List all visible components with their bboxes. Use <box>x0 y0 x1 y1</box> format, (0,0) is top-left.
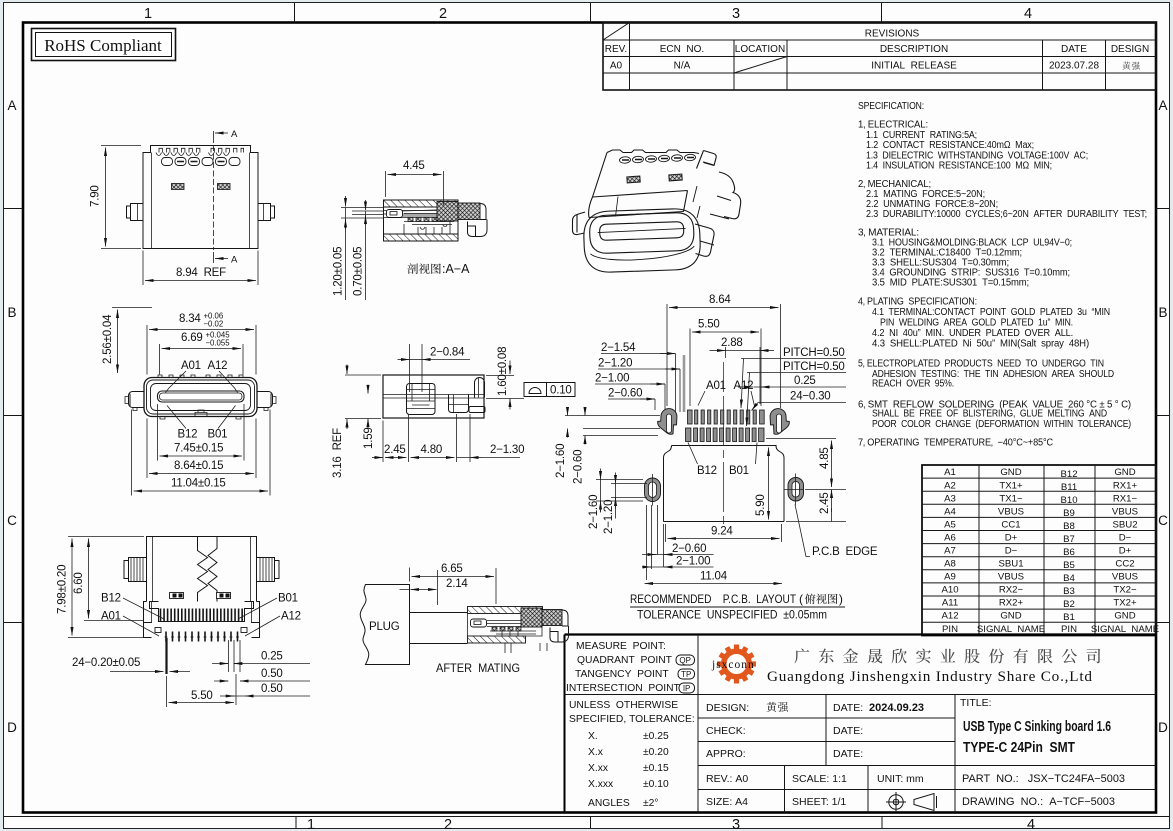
front face edges <box>589 191 688 218</box>
svg-text:A2: A2 <box>944 481 956 492</box>
svg-text:B: B <box>1158 305 1167 320</box>
dim 1.20 / 0.70 <box>346 208 366 301</box>
svg-text:4.45: 4.45 <box>403 160 425 172</box>
revisions table <box>603 23 1156 91</box>
svg-text:2−1.00: 2−1.00 <box>595 373 629 385</box>
top face side edges <box>593 151 704 198</box>
svg-text:TITLE:: TITLE: <box>960 697 992 709</box>
RoHS Compliant box <box>32 29 176 61</box>
svg-text:REACH OVER 95%.: REACH OVER 95%. <box>872 379 954 390</box>
svg-text:DRAWING NO.: A−TCF−5003: DRAWING NO.: A−TCF−5003 <box>962 796 1115 808</box>
svg-text:2−1.60: 2−1.60 <box>588 495 600 529</box>
svg-text:PITCH=0.50: PITCH=0.50 <box>783 361 845 373</box>
svg-text:2.3 DURABILITY:10000 CYCLES;: 2.3 DURABILITY:10000 CYCLES;6~20N AFTER … <box>866 209 1147 220</box>
svg-text:USB Type C Sinking board 1.6: USB Type C Sinking board 1.6 <box>963 719 1111 735</box>
svg-text:TX1−: TX1− <box>999 494 1023 505</box>
svg-text:24−0.20±0.05: 24−0.20±0.05 <box>72 657 140 669</box>
svg-text:2−0.60: 2−0.60 <box>608 388 642 400</box>
svg-text:RoHS Compliant: RoHS Compliant <box>44 36 162 55</box>
svg-text:1: 1 <box>144 6 152 22</box>
svg-text:A7: A7 <box>944 546 956 557</box>
plug with break line <box>360 585 409 665</box>
diagonal cell location <box>734 57 787 74</box>
svg-text:P.C.B EDGE: P.C.B EDGE <box>812 546 878 558</box>
zone ticks left <box>4 209 24 623</box>
svg-text:REV.: REV. <box>605 44 627 55</box>
shell top back edge <box>607 150 699 154</box>
svg-text:0.70±0.05: 0.70±0.05 <box>353 247 365 296</box>
outer housing <box>147 537 257 602</box>
svg-text:TX2+: TX2+ <box>1113 598 1137 609</box>
svg-text:DESCRIPTION: DESCRIPTION <box>880 44 948 55</box>
svg-text:1.60±0.08: 1.60±0.08 <box>497 347 509 396</box>
svg-text:−0.02: −0.02 <box>204 320 224 329</box>
svg-text:3: 3 <box>732 817 740 831</box>
mating lines <box>410 613 468 644</box>
svg-text:A11: A11 <box>942 598 958 609</box>
svg-text:2−0.84: 2−0.84 <box>430 347 465 359</box>
svg-text:A10: A10 <box>941 585 958 596</box>
svg-text:B01: B01 <box>729 465 749 477</box>
svg-text:DESIGN: DESIGN <box>1111 44 1149 55</box>
oval dims left <box>596 480 647 502</box>
right dense block <box>437 202 458 222</box>
svg-text:SHALL BE FREE OF BLISTERIN: SHALL BE FREE OF BLISTERING, GLUE MELTIN… <box>872 409 1107 420</box>
outer shell <box>144 378 257 417</box>
svg-text:2: 2 <box>444 817 452 831</box>
svg-text:1.2 CONTACT RESISTANCE:40mΩ: 1.2 CONTACT RESISTANCE:40mΩ Max; <box>866 140 1034 151</box>
svg-text:B5: B5 <box>1063 560 1075 571</box>
zone letters right <box>1158 98 1168 735</box>
svg-text:SHEET: 1/1: SHEET: 1/1 <box>792 796 846 808</box>
title block <box>565 635 1157 813</box>
svg-text:A9: A9 <box>944 572 956 583</box>
svg-text:X.xxx: X.xxx <box>588 779 614 790</box>
dim 6.65 <box>400 568 497 605</box>
svg-text:SCALE: 1:1: SCALE: 1:1 <box>792 773 847 785</box>
svg-text:B7: B7 <box>1063 534 1075 545</box>
dim 1.59 <box>367 385 369 394</box>
measure point cell <box>566 641 681 694</box>
dim 3.16 REF <box>346 365 348 375</box>
svg-text:C: C <box>1158 513 1168 528</box>
svg-text:TOLERANCE UNSPECIFIED ±0.05m: TOLERANCE UNSPECIFIED ±0.05mm <box>637 608 827 622</box>
svg-text:±0.20: ±0.20 <box>643 747 669 758</box>
svg-text:DESIGN:: DESIGN: <box>706 702 749 714</box>
inner clip <box>407 384 436 415</box>
svg-text:D−: D− <box>1119 533 1132 544</box>
svg-text:A1: A1 <box>944 467 956 478</box>
svg-text:B9: B9 <box>1063 508 1075 519</box>
shell top/bottom hatched <box>384 200 459 207</box>
bottom dims 2.45 4.80 2-1.30 <box>383 414 470 462</box>
svg-text:2.45: 2.45 <box>384 444 406 456</box>
svg-text:B6: B6 <box>1063 547 1075 558</box>
svg-text:UNLESS OTHERWISE: UNLESS OTHERWISE <box>569 700 678 711</box>
svg-text:TX1+: TX1+ <box>999 481 1023 492</box>
left leader lines <box>341 208 384 219</box>
pads top row <box>688 410 765 424</box>
right lower hook <box>695 224 714 256</box>
svg-text:TYPE-C 24Pin SMT: TYPE-C 24Pin SMT <box>963 740 1075 756</box>
svg-text:4.1 TERMINAL:CONTACT POINT: 4.1 TERMINAL:CONTACT POINT GOLD PLATED 3… <box>872 307 1110 318</box>
svg-text:4: 4 <box>1024 6 1032 22</box>
pads bottom row <box>686 428 765 442</box>
flatness flag <box>524 383 575 397</box>
svg-text:2024.09.23: 2024.09.23 <box>869 702 924 714</box>
svg-text:B1: B1 <box>1063 612 1075 623</box>
9.24 <box>666 524 782 542</box>
svg-text:2.56±0.04: 2.56±0.04 <box>102 314 114 364</box>
svg-text:±0.25: ±0.25 <box>643 731 669 742</box>
svg-text:QUADRANT POINT: QUADRANT POINT <box>577 655 673 666</box>
svg-text:7‚ OPERATING TEMPERATURE‚ −4: 7‚ OPERATING TEMPERATURE‚ −40°C~+85°C <box>858 438 1053 449</box>
dim 4.45 <box>386 171 444 205</box>
svg-text:PIN: PIN <box>942 624 958 635</box>
title cell <box>960 697 1125 808</box>
svg-text:0.50: 0.50 <box>261 668 283 680</box>
svg-text:±2°: ±2° <box>643 798 659 809</box>
svg-text:2−1.20: 2−1.20 <box>598 358 632 370</box>
svg-text:RX1−: RX1− <box>1113 494 1138 505</box>
svg-text:X.: X. <box>588 731 598 742</box>
pcb outline <box>664 446 785 522</box>
svg-text:GND: GND <box>1114 611 1135 622</box>
svg-text:VBUS: VBUS <box>998 572 1024 583</box>
svg-text:IP: IP <box>683 684 691 693</box>
svg-text:A01: A01 <box>706 380 726 392</box>
svg-text:ECN NO.: ECN NO. <box>660 44 704 55</box>
svg-text:2−1.30: 2−1.30 <box>490 444 524 456</box>
terminal detail <box>387 210 403 218</box>
svg-text:SIGNAL NAME: SIGNAL NAME <box>1091 624 1159 635</box>
top edge bumps <box>158 375 243 378</box>
svg-text:A5: A5 <box>944 520 956 531</box>
designer name glyphs (revisions) <box>1122 62 1139 70</box>
svg-text:B8: B8 <box>1063 521 1075 532</box>
svg-text:A12: A12 <box>941 611 958 622</box>
svg-text:4‚ PLATING SPECIFICATION:: 4‚ PLATING SPECIFICATION: <box>858 297 977 308</box>
svg-text:APPRO:: APPRO: <box>706 748 746 760</box>
left mounting oval <box>645 474 661 506</box>
svg-text:−0.055: −0.055 <box>206 339 231 348</box>
dim 8.94 REF <box>143 251 258 286</box>
side mount tabs <box>127 204 144 221</box>
svg-text:±0.10: ±0.10 <box>643 779 669 790</box>
svg-text:1.59: 1.59 <box>363 427 375 449</box>
svg-text:PIN WELDING AREA GOLD PLAT: PIN WELDING AREA GOLD PLATED 1u” MIN. <box>880 318 1073 329</box>
center herringbone <box>198 537 218 602</box>
dim 7.98 <box>68 537 144 638</box>
side wings <box>124 558 147 582</box>
lower legs comb <box>165 632 240 642</box>
zone ticks top <box>295 3 882 23</box>
inner cavity lines <box>384 207 456 218</box>
svg-text:REVISIONS: REVISIONS <box>865 29 920 40</box>
svg-text:A: A <box>231 255 238 266</box>
svg-text:): ) <box>839 592 843 606</box>
svg-text:PART NO.: JSX−TC24FA−5003: PART NO.: JSX−TC24FA−5003 <box>962 773 1125 785</box>
svg-text:2.14: 2.14 <box>446 578 468 590</box>
svg-text:B: B <box>7 305 16 320</box>
svg-text:SBU1: SBU1 <box>998 559 1023 570</box>
dim 2.56 <box>112 307 152 309</box>
bezel inner <box>589 212 694 254</box>
svg-text:A4: A4 <box>944 507 956 518</box>
right mounting oval <box>784 474 804 506</box>
svg-text:LOCATION: LOCATION <box>735 44 785 55</box>
svg-text:TANGENCY POINT: TANGENCY POINT <box>575 669 669 680</box>
svg-text:7.98±0.20: 7.98±0.20 <box>57 565 69 614</box>
svg-text:X.x: X.x <box>588 747 604 758</box>
svg-text:RECOMMENDED P.C.B. LAYOUT: RECOMMENDED P.C.B. LAYOUT <box>630 592 796 606</box>
tongue <box>158 391 245 402</box>
receptacle section <box>468 607 543 614</box>
svg-text:8.64±0.15: 8.64±0.15 <box>174 460 223 472</box>
svg-text:QP: QP <box>679 656 691 665</box>
4.85 / 2.45 <box>831 441 833 488</box>
company logo gear <box>717 645 756 684</box>
right tail <box>468 204 488 237</box>
bottom center notch <box>195 410 207 417</box>
svg-text:jsxconn: jsxconn <box>711 659 755 671</box>
svg-text:5‚ ELECTROPLATED PRODUCTS NE: 5‚ ELECTROPLATED PRODUCTS NEED TO UNDERG… <box>858 359 1104 370</box>
svg-text:X.xx: X.xx <box>588 763 609 774</box>
inner cavity <box>151 384 251 411</box>
svg-text:2: 2 <box>439 6 447 22</box>
centerline <box>723 362 725 524</box>
svg-text:REV.: A0: REV.: A0 <box>706 773 748 785</box>
svg-text:1.20±0.05: 1.20±0.05 <box>333 247 345 296</box>
svg-text:2.88: 2.88 <box>721 337 743 349</box>
long legs <box>165 638 167 674</box>
svg-text:VBUS: VBUS <box>1112 507 1138 518</box>
5.90 <box>768 448 770 520</box>
svg-text:(: ( <box>799 592 803 606</box>
svg-text:1.4 INSULATION RESISTANCE:10: 1.4 INSULATION RESISTANCE:100 MΩ MIN; <box>866 161 1052 172</box>
svg-text:GND: GND <box>1000 467 1021 478</box>
svg-text:PITCH=0.50: PITCH=0.50 <box>783 347 845 359</box>
svg-text:C: C <box>7 513 17 528</box>
svg-text:A: A <box>231 129 238 140</box>
left reference lines <box>565 416 660 436</box>
svg-text:ANGLES: ANGLES <box>588 798 630 809</box>
left ground hook <box>657 408 677 435</box>
svg-text:SIZE: A4: SIZE: A4 <box>706 796 748 808</box>
svg-text:9.24: 9.24 <box>711 526 733 538</box>
upper contact comb <box>150 602 254 622</box>
svg-text:RX2−: RX2− <box>999 585 1024 596</box>
svg-text:A3: A3 <box>944 494 956 505</box>
right ear clip <box>703 151 716 166</box>
svg-text:0.50: 0.50 <box>261 683 283 695</box>
dim 6.60 <box>84 620 144 622</box>
svg-text:GND: GND <box>1000 611 1021 622</box>
tongue <box>599 222 684 241</box>
hatched weld marks <box>172 184 185 190</box>
svg-text:CHECK:: CHECK: <box>706 725 746 737</box>
svg-text:UNIT: mm: UNIT: mm <box>877 773 924 785</box>
svg-text:6.69: 6.69 <box>181 332 203 344</box>
svg-text:POOR COLOR CHANGE (DEFORMAT: POOR COLOR CHANGE (DEFORMATION WITHIN TO… <box>872 419 1131 430</box>
projection symbols <box>886 792 937 812</box>
diagonal cell top-left <box>603 23 630 41</box>
svg-text:VBUS: VBUS <box>1112 572 1138 583</box>
right hook <box>475 378 485 398</box>
center block <box>449 395 469 413</box>
svg-text:D: D <box>1158 720 1168 735</box>
svg-text:5.50: 5.50 <box>191 690 213 702</box>
zone numbers bottom <box>307 817 1035 831</box>
svg-text:24−0.30: 24−0.30 <box>790 391 831 403</box>
svg-text:2−0.60: 2−0.60 <box>573 450 585 484</box>
svg-text:5.90: 5.90 <box>755 494 767 516</box>
svg-text:1‚ ELECTRICAL:: 1‚ ELECTRICAL: <box>858 120 928 131</box>
weld nubs <box>170 593 184 599</box>
right mount tab <box>257 392 273 408</box>
svg-text:3: 3 <box>732 6 740 22</box>
svg-text:VBUS: VBUS <box>998 507 1024 518</box>
svg-text:MEASURE POINT:: MEASURE POINT: <box>576 641 666 652</box>
svg-text:4.80: 4.80 <box>421 444 443 456</box>
dim 7.90 <box>101 146 141 249</box>
svg-text:DATE:: DATE: <box>833 748 863 760</box>
svg-text:B3: B3 <box>1063 586 1075 597</box>
svg-text:4.3 SHELL:PLATED Ni 50u” M: 4.3 SHELL:PLATED Ni 50u” MIN(Salt spray … <box>872 339 1089 350</box>
svg-text:0.25: 0.25 <box>794 375 816 387</box>
left mount tab <box>129 392 145 408</box>
row of holes <box>162 158 241 166</box>
svg-text:A: A <box>7 98 16 113</box>
dim 7.45 <box>158 404 245 461</box>
svg-text:N/A: N/A <box>674 61 691 72</box>
designer name glyphs (design cell) <box>766 702 788 712</box>
svg-text:D+: D+ <box>1119 546 1132 557</box>
svg-text:4.2 NI 40u” MIN. UNDER PL: 4.2 NI 40u” MIN. UNDER PLATED OVER ALL. <box>872 328 1073 339</box>
svg-text:4.85: 4.85 <box>819 447 831 469</box>
svg-text:B11: B11 <box>1061 482 1077 493</box>
svg-text:D+: D+ <box>1005 533 1018 544</box>
zone ticks right <box>1156 209 1170 623</box>
dim 11.04 <box>132 410 271 496</box>
caption 剖视图:A-A <box>407 263 440 274</box>
svg-text:SPECIFIED, TOLERANCE:: SPECIFIED, TOLERANCE: <box>569 714 695 725</box>
svg-text:2.45: 2.45 <box>819 492 831 514</box>
svg-text:TX2−: TX2− <box>1113 585 1137 596</box>
svg-text:11.04: 11.04 <box>700 571 728 583</box>
svg-text:TP: TP <box>681 670 691 679</box>
svg-text:3.16 REF: 3.16 REF <box>332 428 344 478</box>
tolerance cell <box>569 700 695 809</box>
lower shell <box>144 602 260 638</box>
svg-text:B12: B12 <box>697 465 717 477</box>
svg-text:INITIAL RELEASE: INITIAL RELEASE <box>871 61 957 72</box>
svg-text:8.34: 8.34 <box>179 313 201 325</box>
11.04 <box>645 583 783 585</box>
svg-text:B01: B01 <box>278 593 298 605</box>
svg-text:A8: A8 <box>944 559 956 570</box>
zone numbers top <box>144 6 1032 22</box>
right ground hook <box>770 408 790 435</box>
svg-text:±0.15: ±0.15 <box>643 763 669 774</box>
svg-text:0.25: 0.25 <box>261 651 283 663</box>
svg-text:SPECIFICATION:: SPECIFICATION: <box>858 101 924 112</box>
svg-text:3.5 MID PLATE:SUS301 T=0.15: 3.5 MID PLATE:SUS301 T=0.15mm; <box>872 278 1029 289</box>
section cut line A-A <box>213 131 215 263</box>
company chinese name <box>794 648 1100 663</box>
svg-text:A0: A0 <box>610 61 623 72</box>
svg-text:2023.07.28: 2023.07.28 <box>1049 61 1099 72</box>
svg-text:D−: D− <box>1005 546 1018 557</box>
svg-text:2−0.60: 2−0.60 <box>672 543 706 555</box>
svg-text:2−1.00: 2−1.00 <box>676 556 710 568</box>
svg-text:INTERSECTION POINT: INTERSECTION POINT <box>566 683 681 694</box>
svg-text:8.64: 8.64 <box>709 294 731 306</box>
design/check/appro rows <box>706 702 924 808</box>
svg-text:A12: A12 <box>281 611 301 623</box>
top comb teeth <box>159 148 244 152</box>
svg-text:4: 4 <box>1027 817 1035 831</box>
svg-text:2−1.60: 2−1.60 <box>555 444 567 478</box>
svg-text:A6: A6 <box>944 533 956 544</box>
svg-text:A01: A01 <box>101 611 121 623</box>
right middle hook <box>710 172 741 219</box>
svg-text:D: D <box>7 720 17 735</box>
svg-text:GND: GND <box>1114 467 1135 478</box>
svg-text:DATE:: DATE: <box>833 725 863 737</box>
svg-text:A01: A01 <box>181 360 201 372</box>
svg-text:SIGNAL NAME: SIGNAL NAME <box>977 624 1045 635</box>
svg-text:B4: B4 <box>1063 573 1075 584</box>
svg-text::A−A: :A−A <box>442 262 470 276</box>
bottom small feet <box>160 417 241 420</box>
svg-text:8.94 REF: 8.94 REF <box>176 267 226 279</box>
svg-text:B01: B01 <box>208 429 228 441</box>
dim 8.64 <box>147 419 256 479</box>
body outline <box>143 146 258 249</box>
svg-text:A12: A12 <box>208 360 228 372</box>
svg-text:B12: B12 <box>178 429 198 441</box>
svg-text:1: 1 <box>307 817 315 831</box>
svg-text:CC1: CC1 <box>1001 520 1020 531</box>
svg-text:RX2+: RX2+ <box>999 598 1024 609</box>
weld marks on top face <box>627 174 682 183</box>
svg-text:PIN: PIN <box>1061 624 1077 635</box>
svg-text:B2: B2 <box>1063 599 1075 610</box>
pin assignment table <box>922 465 1159 636</box>
zone letters left <box>7 98 17 735</box>
svg-text:A: A <box>1158 98 1167 113</box>
bezel outer <box>583 208 701 273</box>
right dense block <box>521 608 542 627</box>
svg-text:11.04±0.15: 11.04±0.15 <box>171 478 226 490</box>
svg-text:6.65: 6.65 <box>441 563 463 575</box>
specification text <box>858 101 1147 449</box>
svg-text:5.50: 5.50 <box>698 319 720 331</box>
svg-text:Guangdong Jinshengxin Industry: Guangdong Jinshengxin Industry Share Co.… <box>767 668 1092 685</box>
svg-text:DATE: DATE <box>1061 44 1087 55</box>
zone band bottom <box>4 816 1170 818</box>
dim 5.50 <box>167 674 237 707</box>
dim 2.14 <box>437 570 439 605</box>
svg-text:AFTER MATING: AFTER MATING <box>436 661 520 675</box>
svg-text:2−1.54: 2−1.54 <box>601 342 636 354</box>
svg-text:PLUG: PLUG <box>369 621 400 633</box>
svg-text:RX1+: RX1+ <box>1113 481 1138 492</box>
svg-text:B10: B10 <box>1060 495 1077 506</box>
svg-text:2−1.20: 2−1.20 <box>603 500 615 534</box>
svg-text:B12: B12 <box>1060 469 1077 480</box>
